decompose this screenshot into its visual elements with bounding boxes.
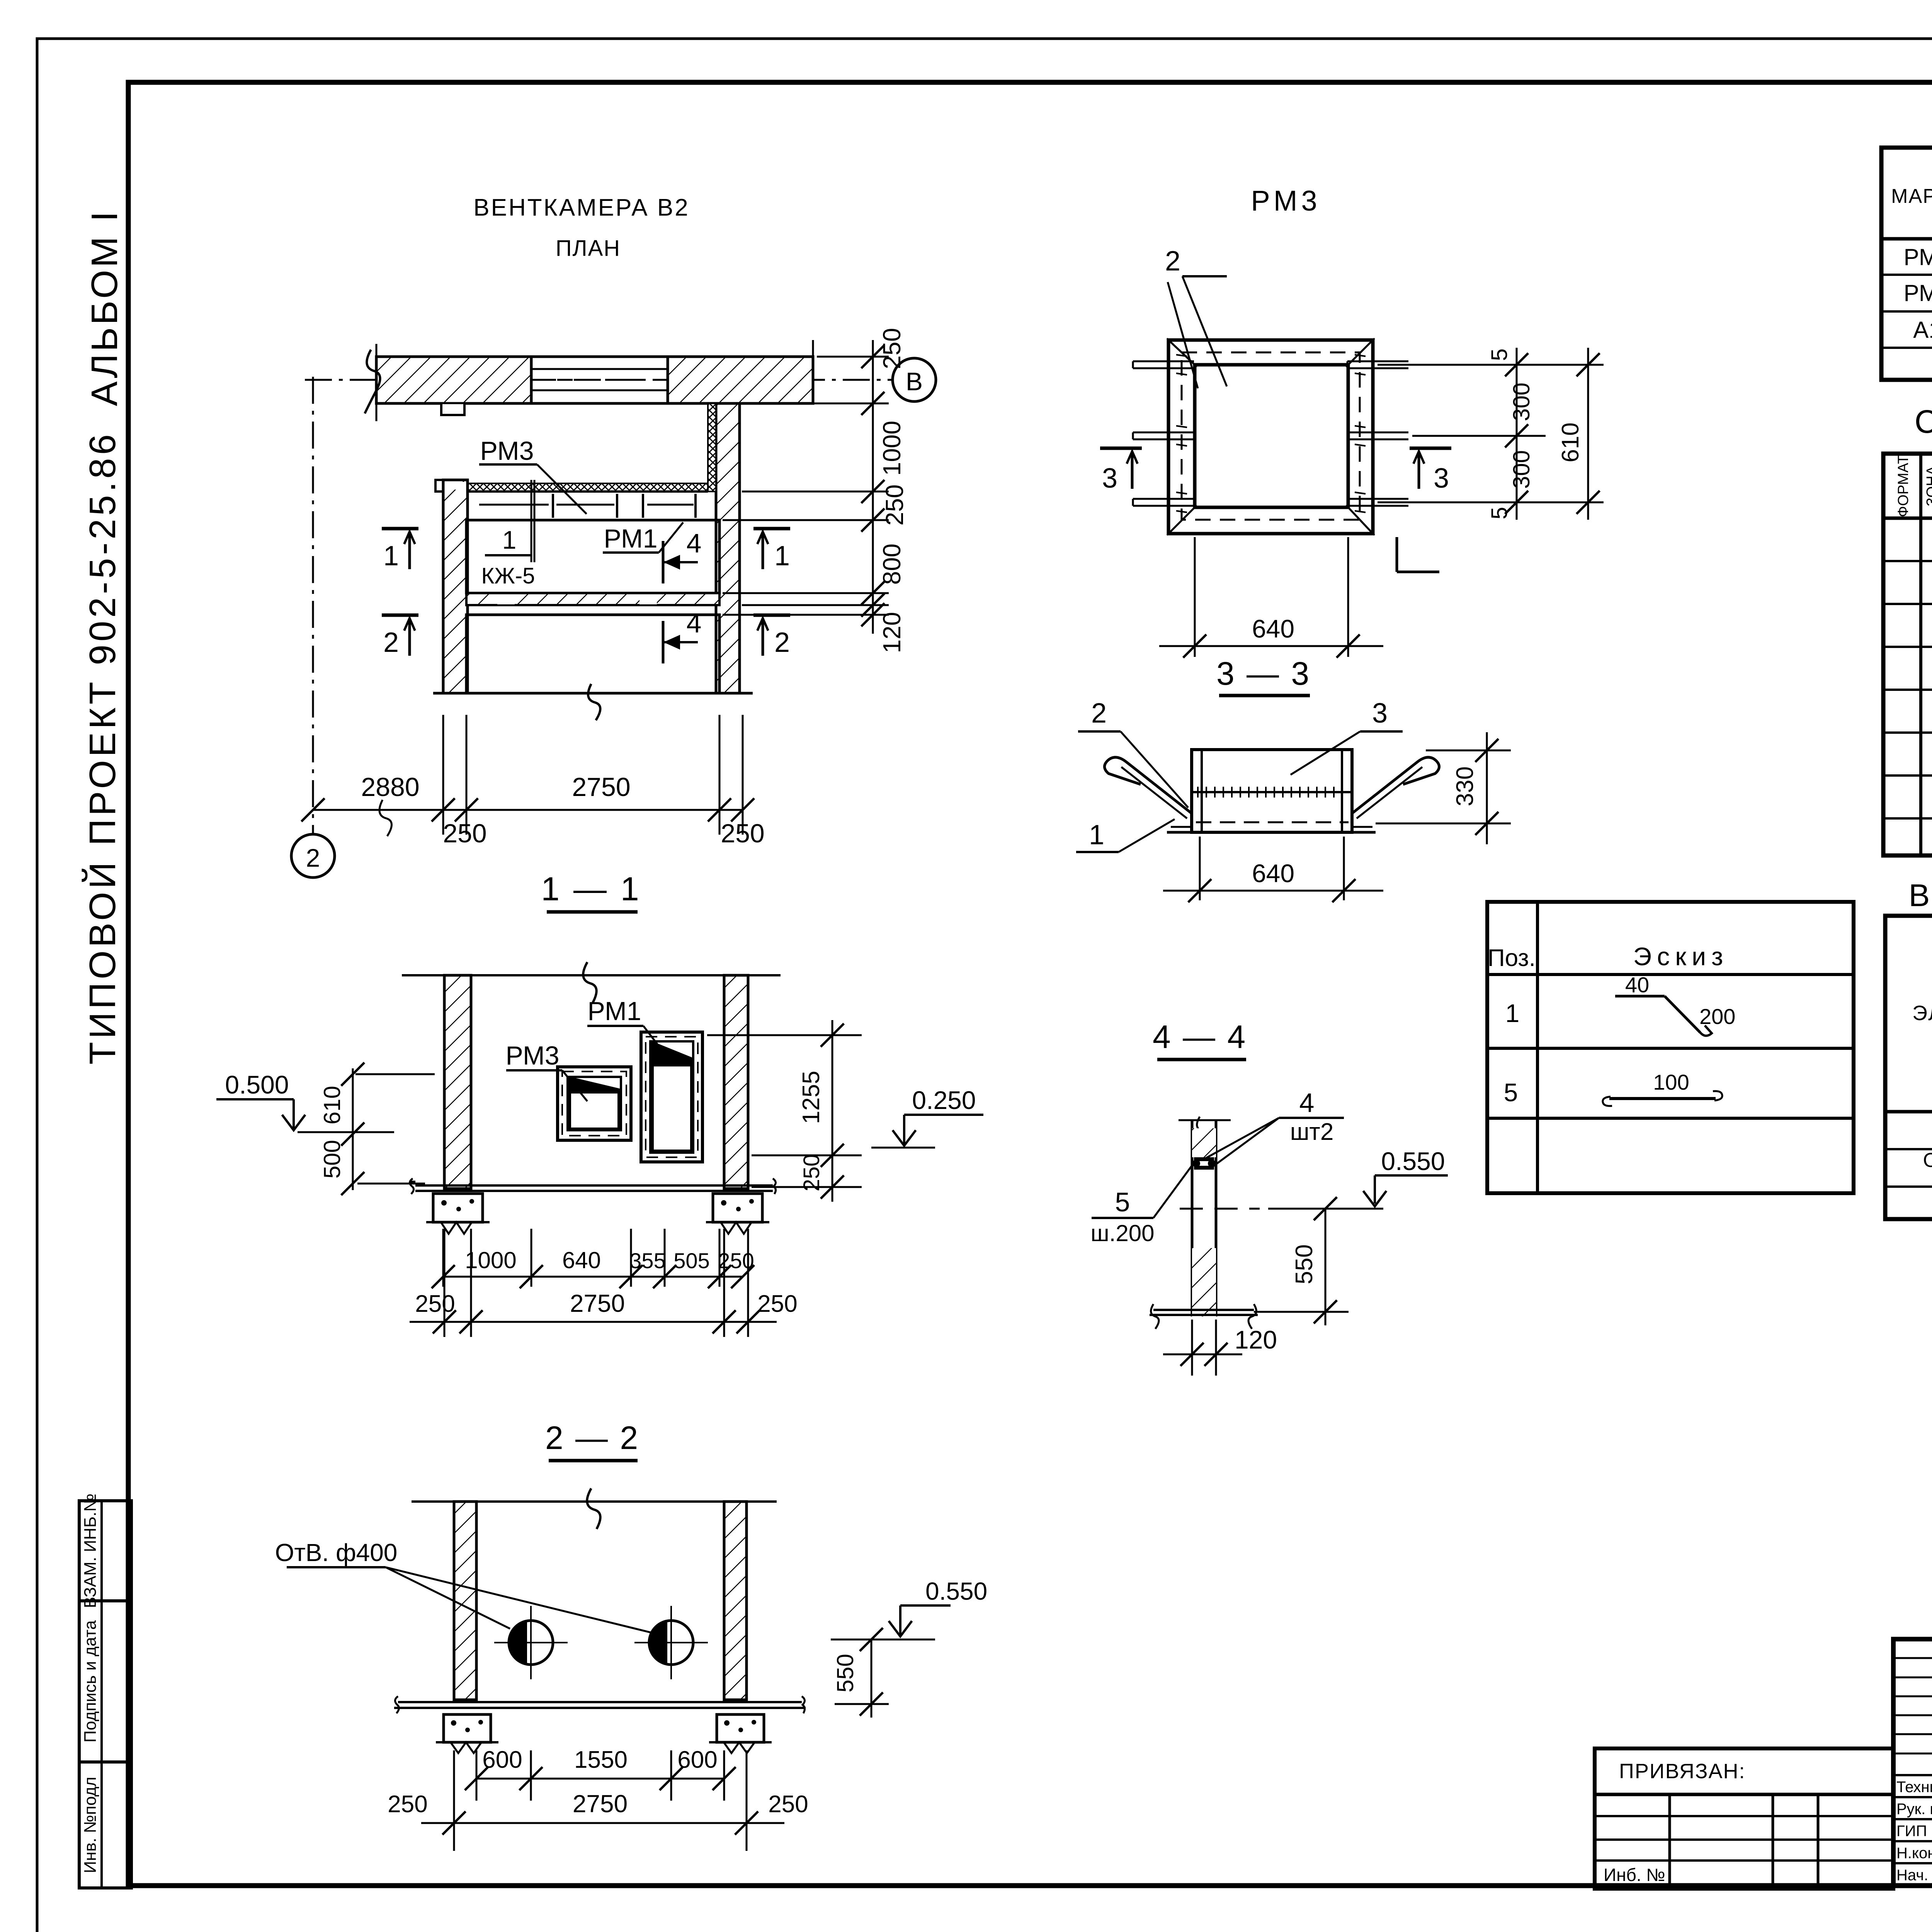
svg-text:Техник: Техник — [1896, 1779, 1932, 1796]
svg-text:4: 4 — [687, 528, 702, 558]
svg-text:610: 610 — [319, 1086, 345, 1124]
svg-text:ФОРМАТ: ФОРМАТ — [1895, 455, 1912, 517]
svg-text:3: 3 — [1102, 463, 1117, 494]
svg-text:ш.200: ш.200 — [1091, 1220, 1155, 1246]
svg-text:Рук. гр.: Рук. гр. — [1896, 1801, 1932, 1818]
svg-text:640: 640 — [1252, 859, 1294, 888]
svg-text:РМ1: РМ1 — [1904, 244, 1932, 270]
svg-text:0.550: 0.550 — [925, 1577, 987, 1605]
svg-text:ВЗАМ. ИНБ.№: ВЗАМ. ИНБ.№ — [81, 1493, 100, 1608]
svg-text:600: 600 — [482, 1747, 522, 1773]
svg-text:250: 250 — [388, 1791, 427, 1818]
svg-text:2: 2 — [1091, 698, 1107, 729]
svg-text:5: 5 — [1487, 349, 1512, 361]
svg-text:5: 5 — [1115, 1187, 1130, 1217]
svg-text:2: 2 — [774, 627, 790, 658]
svg-text:РМ3: РМ3 — [1251, 185, 1321, 217]
svg-text:ОтВ. ф400: ОтВ. ф400 — [275, 1539, 398, 1566]
svg-text:РМ1: РМ1 — [587, 997, 641, 1026]
svg-text:1000: 1000 — [878, 421, 906, 476]
svg-text:2: 2 — [1165, 246, 1180, 277]
svg-text:2750: 2750 — [573, 1790, 628, 1818]
svg-text:РМ1: РМ1 — [604, 524, 657, 553]
svg-text:2750: 2750 — [570, 1289, 625, 1317]
svg-text:5: 5 — [1504, 1078, 1518, 1107]
svg-text:ПРИВЯЗАН:: ПРИВЯЗАН: — [1619, 1760, 1746, 1783]
svg-text:Спецификация на металличе: Спецификация на металлические изделия — [1915, 403, 1932, 440]
svg-text:4: 4 — [687, 608, 702, 638]
svg-text:2: 2 — [306, 844, 320, 872]
svg-text:В: В — [906, 367, 923, 396]
svg-text:АЛЬБОМ I: АЛЬБОМ I — [84, 209, 125, 406]
svg-text:330: 330 — [1452, 766, 1478, 806]
svg-text:600: 600 — [677, 1747, 717, 1773]
svg-text:ВЕНТКАМЕРА В2: ВЕНТКАМЕРА В2 — [473, 194, 689, 221]
svg-text:640: 640 — [1252, 614, 1294, 643]
svg-text:3: 3 — [1372, 698, 1388, 729]
svg-text:1: 1 — [1505, 999, 1520, 1027]
svg-text:МАРКА: МАРКА — [1891, 185, 1932, 207]
svg-text:640: 640 — [562, 1247, 601, 1273]
svg-text:100: 100 — [1653, 1070, 1689, 1094]
svg-text:ГИП конс.: ГИП конс. — [1896, 1823, 1932, 1840]
svg-text:1: 1 — [502, 526, 517, 554]
svg-text:Эскиз: Эскиз — [1633, 942, 1728, 971]
svg-text:120: 120 — [878, 612, 906, 653]
svg-text:Поз.: Поз. — [1488, 945, 1536, 971]
svg-text:Инв. №подл: Инв. №подл — [81, 1777, 100, 1873]
svg-text:1550: 1550 — [574, 1747, 628, 1773]
svg-text:1: 1 — [774, 541, 790, 571]
svg-text:200: 200 — [1699, 1004, 1735, 1029]
svg-text:2: 2 — [383, 627, 399, 658]
svg-text:0.550: 0.550 — [1381, 1147, 1445, 1175]
svg-text:3: 3 — [1434, 463, 1449, 494]
svg-text:250: 250 — [721, 819, 764, 848]
svg-text:ЭЛЕМЕНТА: ЭЛЕМЕНТА — [1912, 1002, 1932, 1025]
svg-text:Подпись и дата: Подпись и дата — [81, 1620, 100, 1743]
svg-text:0.500: 0.500 — [225, 1070, 289, 1099]
svg-text:Нач. АСО: Нач. АСО — [1896, 1867, 1932, 1884]
svg-text:РМ3: РМ3 — [505, 1041, 559, 1070]
svg-text:3 — 3: 3 — 3 — [1216, 655, 1311, 692]
svg-text:250: 250 — [878, 328, 906, 369]
svg-text:Ведомость расхода стали: Ведомость расхода стали на одно изделие … — [1909, 878, 1932, 913]
svg-text:1: 1 — [383, 541, 399, 571]
svg-text:Н.контр.: Н.контр. — [1896, 1845, 1932, 1862]
svg-text:300: 300 — [1509, 450, 1534, 489]
svg-text:355: 355 — [629, 1248, 665, 1273]
svg-text:2880: 2880 — [361, 772, 419, 802]
svg-text:ПЛАН: ПЛАН — [556, 236, 621, 261]
svg-text:Отдельные: Отдельные — [1923, 1149, 1932, 1172]
svg-text:А1: А1 — [1913, 317, 1932, 343]
svg-text:1255: 1255 — [798, 1071, 825, 1124]
svg-text:шт2: шт2 — [1290, 1119, 1334, 1145]
svg-text:250: 250 — [768, 1791, 808, 1818]
svg-text:РМ3: РМ3 — [1904, 280, 1932, 306]
svg-text:2750: 2750 — [572, 772, 630, 802]
svg-text:250: 250 — [881, 485, 908, 526]
svg-text:250: 250 — [443, 819, 486, 848]
svg-text:КЖ-5: КЖ-5 — [481, 563, 535, 588]
svg-text:500: 500 — [319, 1140, 345, 1179]
svg-text:ТИПОВОЙ ПРОЕКТ 902-5-25.86: ТИПОВОЙ ПРОЕКТ 902-5-25.86 — [82, 431, 123, 1065]
svg-text:1: 1 — [1089, 820, 1104, 850]
svg-text:1 — 1: 1 — 1 — [541, 871, 641, 908]
svg-text:4 — 4: 4 — 4 — [1153, 1019, 1247, 1055]
svg-text:120: 120 — [1235, 1325, 1277, 1354]
svg-text:550: 550 — [832, 1654, 858, 1692]
svg-text:РМ3: РМ3 — [480, 436, 534, 466]
svg-text:40: 40 — [1625, 973, 1649, 997]
svg-text:610: 610 — [1557, 422, 1584, 462]
svg-text:5: 5 — [1487, 507, 1512, 519]
svg-text:Инб. №: Инб. № — [1604, 1865, 1665, 1885]
svg-text:300: 300 — [1509, 383, 1534, 421]
svg-text:250: 250 — [757, 1291, 797, 1317]
svg-text:505: 505 — [673, 1248, 709, 1273]
svg-text:250: 250 — [415, 1291, 455, 1317]
svg-text:1000: 1000 — [465, 1247, 516, 1273]
svg-text:ЗОНА: ЗОНА — [1924, 466, 1932, 507]
svg-text:550: 550 — [1291, 1244, 1318, 1284]
svg-text:4: 4 — [1299, 1088, 1315, 1118]
svg-text:250: 250 — [799, 1154, 824, 1192]
svg-text:800: 800 — [878, 544, 906, 585]
svg-text:0.250: 0.250 — [912, 1086, 976, 1114]
svg-text:2 — 2: 2 — 2 — [545, 1420, 639, 1456]
